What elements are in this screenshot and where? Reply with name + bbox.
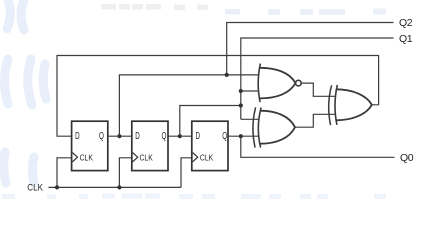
svg-text:CLK: CLK bbox=[27, 182, 43, 192]
svg-text:CLK: CLK bbox=[80, 152, 94, 162]
svg-text:Q: Q bbox=[99, 131, 104, 142]
svg-text:D: D bbox=[135, 131, 140, 142]
wire: CLK riser to FF U2 bbox=[119, 158, 131, 188]
wire: Q1 net FF U2 Q to FF U3 D bbox=[168, 135, 192, 137]
wire: CLK riser to FF U3 bbox=[181, 158, 192, 188]
wire: XOR U5 output to XOR U6 lower input bbox=[295, 114, 335, 127]
wire: CLK riser to FF U1 bbox=[57, 158, 72, 188]
wire: NOR U4 output to XOR U6 upper input bbox=[301, 83, 335, 96]
junction Q1 bus at FF U2 riser bbox=[239, 103, 243, 107]
junction CLK at FF U2 bbox=[117, 185, 121, 189]
svg-text:Q2: Q2 bbox=[399, 17, 413, 29]
wire: Q1 net riser from FF U2 Q bbox=[180, 106, 241, 137]
wire: Q2 net FF U1 Q to FF U2 D input bbox=[108, 135, 132, 137]
XOR gate U5 bbox=[253, 107, 295, 147]
svg-text:CLK: CLK bbox=[140, 152, 154, 162]
svg-text:CLK: CLK bbox=[200, 152, 214, 162]
NOR gate U4 bbox=[258, 64, 301, 103]
D flip-flop U3 bbox=[192, 121, 228, 170]
svg-text:D: D bbox=[196, 131, 201, 142]
D flip-flop U2 bbox=[132, 121, 168, 170]
wire: CLK bus bbox=[49, 186, 182, 188]
faint watermark decorations bbox=[4, 0, 46, 183]
svg-text:Q1: Q1 bbox=[399, 33, 413, 45]
wire: Q1 vertical bus to Q1 terminal bbox=[241, 38, 394, 119]
junction at FF U3 Q bbox=[239, 134, 243, 138]
junction Q1 bus to NOR lower input bbox=[239, 89, 243, 93]
wire: Q2 tap up to output terminal bbox=[227, 23, 394, 75]
junction CLK at FF U1 bbox=[55, 185, 59, 189]
wire: Q1 branch to NOR U4 lower input bbox=[241, 90, 259, 92]
svg-text:Q: Q bbox=[222, 131, 227, 142]
D flip-flop U1 bbox=[72, 121, 108, 170]
wire: Q1 branch to XOR U5 upper input bbox=[241, 118, 259, 120]
svg-text:Q: Q bbox=[162, 131, 167, 142]
wire: Q2 net riser from FF U1 Q to NOR input bbox=[119, 75, 258, 136]
wire: feedback net from XOR U6 output to FF U1 D input bbox=[57, 56, 379, 137]
junction at FF U1 Q bbox=[117, 134, 121, 138]
wire: Q0 net FF U3 Q to XOR U5 lower input bbox=[228, 135, 259, 137]
XOR gate U6 bbox=[329, 85, 372, 125]
junction at FF U2 Q bbox=[178, 134, 182, 138]
svg-text:D: D bbox=[75, 131, 80, 142]
svg-text:Q0: Q0 bbox=[400, 152, 414, 164]
junction Q2 tap on NOR input bbox=[225, 73, 229, 77]
wire: Q0 branch down to Q0 terminal bbox=[241, 136, 395, 157]
